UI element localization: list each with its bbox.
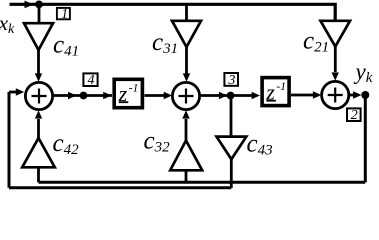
wire: c31 output down to summer 2 xyxy=(185,46,188,74)
node 4 numbered box xyxy=(83,73,97,88)
wire: node 3 down to c43 xyxy=(230,96,233,138)
wire: c42 input stub down to feedback line A xyxy=(37,167,40,182)
wire: left feedback into summer 1 xyxy=(9,91,17,94)
wire: c42 output up to summer 1 xyxy=(37,119,40,139)
gain triangle c31 xyxy=(172,21,201,47)
node 2 numbered box xyxy=(347,108,361,123)
node 3 numbered box xyxy=(224,73,238,88)
svg-text:-1: -1 xyxy=(276,81,286,93)
wire: node 3 to delay 2 xyxy=(234,94,256,97)
arrowhead on input line xyxy=(25,1,34,9)
delay block z^-1 #2 xyxy=(262,78,289,106)
wire: stub from top line down to c31 xyxy=(185,4,188,21)
wire: delay 2 output to summer 3 xyxy=(291,94,315,97)
svg-text:3: 3 xyxy=(227,73,235,88)
delay block z^-1 #1 xyxy=(114,79,142,107)
node 4 junction dot xyxy=(80,92,88,100)
wire: stub from node 1 down to c41 xyxy=(38,4,41,22)
wire: summer 2 output to node 3 xyxy=(200,94,228,97)
gain triangle c41 xyxy=(24,23,53,50)
gain triangle c43 xyxy=(217,137,247,160)
node 1 junction dot xyxy=(35,1,43,9)
wire: delay 1 output to summer 2 xyxy=(145,94,167,97)
wire: c32 output up to summer 2 xyxy=(185,119,188,142)
gain triangle c42 xyxy=(22,138,55,167)
summer 2 (adder circle with plus) xyxy=(172,82,199,109)
node 3 junction dot xyxy=(227,92,235,100)
wire: summer 3 output to node 2 xyxy=(349,94,358,97)
wire: c43 output down to feedback line B xyxy=(230,158,233,188)
summer 1 (adder circle with plus) xyxy=(25,82,52,109)
svg-text:2: 2 xyxy=(351,108,358,123)
wire: feedback line A from node 2 to c42/c32 inputs xyxy=(39,95,366,182)
node 2 junction dot xyxy=(361,91,369,99)
summer 3 (adder circle with plus) xyxy=(322,81,349,108)
svg-text:-1: -1 xyxy=(129,82,139,94)
node 1 numbered box xyxy=(57,6,70,21)
wire: c41 output down to summer 1 xyxy=(37,49,40,74)
wire: top input line from x_k across to c21 corner xyxy=(10,4,336,21)
wire: summer 1 output to delay 1 xyxy=(53,94,112,97)
wire: c32 input stub down to feedback line A xyxy=(185,170,188,182)
wire: feedback line B from c43 to summer 1 left input xyxy=(9,92,231,188)
svg-text:1: 1 xyxy=(61,6,68,21)
wire: c21 output down to summer 3 xyxy=(334,46,337,73)
gain triangle c21 xyxy=(321,21,351,47)
svg-text:4: 4 xyxy=(88,73,95,88)
gain triangle c32 xyxy=(170,141,202,171)
